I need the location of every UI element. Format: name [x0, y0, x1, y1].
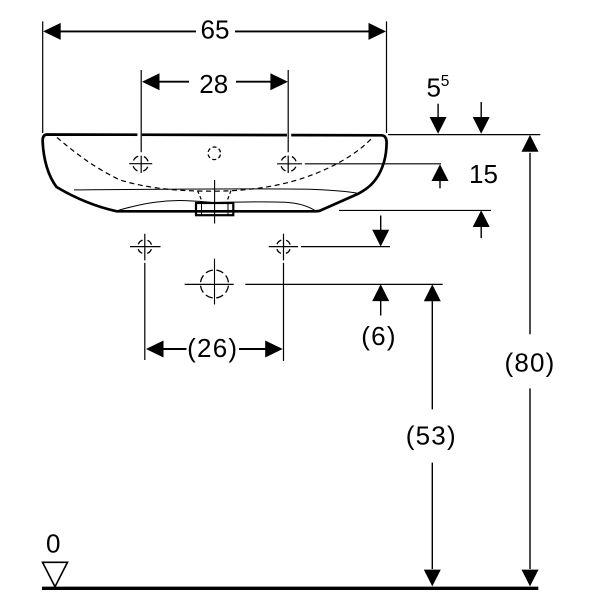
dimension 53 bottom arrow [424, 570, 441, 587]
dimension 65 left arrow [43, 23, 61, 40]
top edge gap at left extension line [137, 132, 142, 139]
extension line 28 right [287, 70, 289, 173]
svg-text:0: 0 [46, 529, 60, 559]
dimension 26 right arrow [265, 341, 283, 358]
svg-text:65: 65 [201, 15, 230, 45]
basin inner shelf line [74, 189, 359, 194]
svg-text:(6): (6) [361, 321, 396, 351]
datum triangle [43, 562, 68, 587]
dimension 6 lower arrow [380, 300, 382, 316]
extension line 65 right [386, 21, 388, 133]
bottom reference line [339, 209, 491, 211]
dimension 26 line [163, 348, 267, 350]
floor line [42, 587, 538, 590]
right fixing hole [277, 234, 291, 361]
svg-text:(26): (26) [187, 333, 238, 363]
dimension 15 upper arrow [480, 102, 482, 118]
drain funnel hidden edges (dashed) [198, 191, 232, 203]
extension line 65 left [42, 21, 44, 133]
dimension 15 lower arrow [480, 227, 482, 239]
faucet reference line [277, 163, 441, 165]
drain hole cross horizontal [185, 283, 234, 285]
dimension 6 upper arrow [380, 216, 382, 232]
dimension 53 top arrow [424, 284, 441, 301]
dimension 80 line [529, 153, 531, 569]
dimension 28 line [159, 81, 271, 83]
top edge gap at right extension line [287, 132, 291, 139]
svg-text:(80): (80) [504, 348, 555, 378]
basin inner bottom arc [117, 201, 316, 211]
left faucet hole [129, 156, 152, 172]
drain hole circle [201, 270, 229, 298]
svg-text:(53): (53) [406, 420, 457, 450]
dimension 28 right arrow [270, 73, 288, 90]
left fixing hole [130, 234, 161, 360]
rim reference line [388, 134, 540, 136]
extension line 28 left [140, 70, 142, 173]
drain trap inner lines [202, 203, 229, 215]
overflow small circle [208, 147, 221, 160]
fixing holes reference line [269, 246, 390, 248]
svg-text:15: 15 [469, 159, 498, 189]
dimension 26 left arrow [146, 341, 164, 358]
dimension 53 line [431, 300, 433, 569]
drain centerline [214, 180, 216, 224]
svg-text:28: 28 [199, 69, 228, 99]
dimension 28 left arrow [142, 73, 160, 90]
svg-text:5: 5 [427, 73, 441, 103]
drain reference line [245, 283, 442, 285]
svg-text:5: 5 [441, 73, 450, 90]
dimension 80 top arrow [522, 135, 539, 152]
dimension 65 line [60, 30, 370, 32]
drain trap rectangle [196, 203, 233, 215]
right faucet hole [281, 156, 297, 172]
dimension 5.5 upper arrow [437, 104, 439, 118]
basin inner rim hidden edge (dashed) [57, 138, 372, 192]
drain hole cross vertical [214, 259, 216, 305]
dimension 5.5 lower arrow [439, 181, 441, 189]
basin outline [43, 135, 387, 212]
dimension 80 bottom arrow [522, 570, 539, 587]
dimension 65 right arrow [369, 23, 387, 40]
